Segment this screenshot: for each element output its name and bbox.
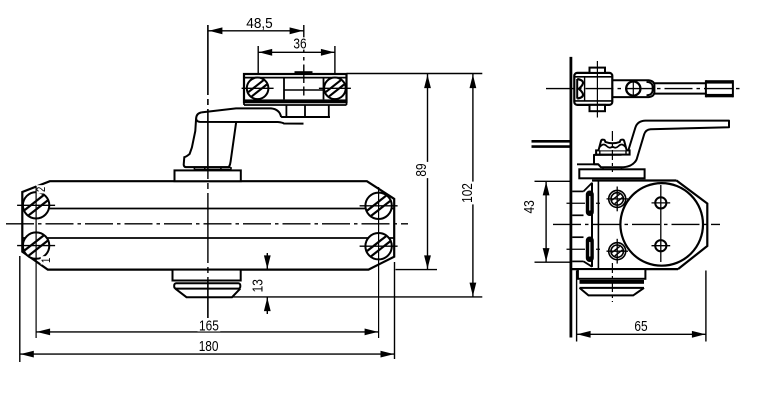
- svg-text:13: 13: [250, 279, 267, 292]
- svg-text:48,5: 48,5: [246, 15, 272, 32]
- svg-text:102: 102: [459, 183, 476, 203]
- svg-text:36: 36: [293, 36, 306, 53]
- svg-text:1: 1: [39, 257, 53, 263]
- svg-text:89: 89: [413, 163, 430, 176]
- svg-text:180: 180: [199, 338, 219, 355]
- svg-text:165: 165: [199, 318, 219, 335]
- svg-text:43: 43: [521, 200, 538, 213]
- svg-text:65: 65: [634, 318, 647, 335]
